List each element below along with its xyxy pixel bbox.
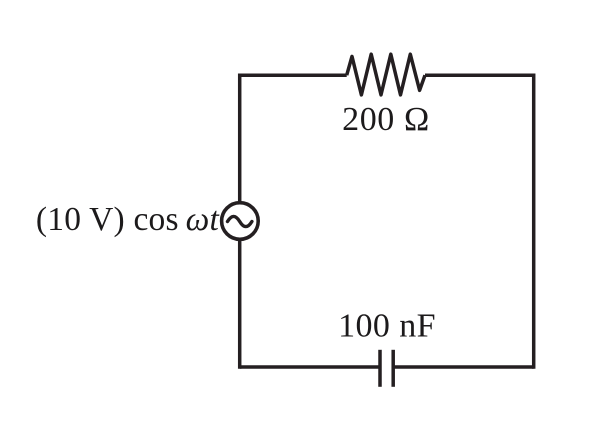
wire right side <box>532 73 536 368</box>
AC voltage source circle <box>222 203 259 240</box>
svg-text:(10 V) cos ωt: (10 V) cos ωt <box>36 201 220 238</box>
wire bottom-left segment <box>240 365 380 369</box>
wire top-left segment <box>240 73 347 77</box>
wire left side upper (corner to source) <box>238 73 242 203</box>
resistor R (zigzag) <box>347 54 425 95</box>
wire top-right segment <box>425 73 534 77</box>
wire left side lower (source to corner) <box>238 239 242 369</box>
capacitor C right plate <box>391 350 395 387</box>
svg-text:100 nF: 100 nF <box>338 308 436 345</box>
AC source sine symbol <box>228 216 252 226</box>
wire bottom-right segment <box>393 365 534 369</box>
svg-text:200 Ω: 200 Ω <box>342 101 430 138</box>
capacitor C left plate <box>378 350 382 387</box>
